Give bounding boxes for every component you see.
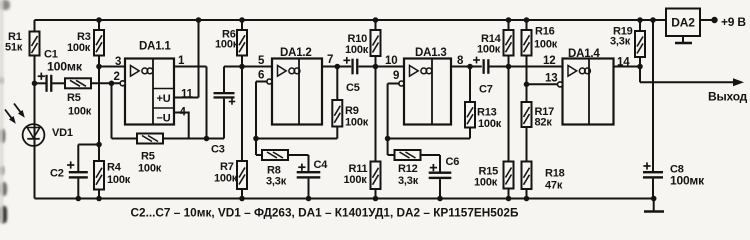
svg-text:100к: 100к — [67, 42, 91, 54]
svg-text:47к: 47к — [545, 180, 563, 192]
svg-text:51к: 51к — [5, 42, 23, 54]
svg-text:1: 1 — [178, 55, 185, 67]
svg-text:6: 6 — [258, 70, 264, 82]
svg-text:3,3к: 3,3к — [266, 175, 287, 187]
svg-text:C7: C7 — [479, 84, 493, 96]
svg-text:3,3к: 3,3к — [398, 175, 419, 187]
svg-text:2: 2 — [114, 71, 120, 83]
svg-text:8: 8 — [457, 55, 464, 67]
svg-text:100к: 100к — [345, 44, 369, 56]
svg-text:100к: 100к — [344, 174, 368, 186]
svg-text:DA1.4: DA1.4 — [568, 48, 600, 60]
svg-text:+9 В: +9 В — [721, 15, 746, 29]
svg-text:C3: C3 — [211, 144, 225, 156]
svg-text:R5: R5 — [141, 151, 155, 163]
svg-text:3: 3 — [115, 56, 121, 68]
svg-text:R16: R16 — [535, 26, 555, 38]
svg-text:100к: 100к — [477, 44, 501, 56]
svg-text:12: 12 — [543, 55, 555, 67]
svg-text:C4: C4 — [314, 159, 329, 171]
svg-text:100к: 100к — [215, 39, 239, 51]
svg-text:10: 10 — [385, 55, 397, 67]
svg-text:100к: 100к — [107, 174, 131, 186]
svg-text:R13: R13 — [477, 107, 497, 119]
svg-text:+U: +U — [157, 93, 171, 105]
svg-text:R12: R12 — [398, 163, 418, 175]
svg-text:R9: R9 — [345, 105, 359, 117]
svg-text:100мк: 100мк — [47, 60, 83, 74]
svg-text:4: 4 — [180, 107, 187, 119]
svg-text:11: 11 — [181, 89, 194, 101]
svg-text:C5: C5 — [346, 82, 360, 94]
svg-text:5: 5 — [258, 55, 265, 67]
svg-text:C2: C2 — [50, 168, 64, 180]
svg-text:−U: −U — [157, 113, 171, 125]
svg-text:Выход: Выход — [708, 90, 748, 104]
svg-text:R18: R18 — [545, 168, 565, 180]
svg-text:100к: 100к — [214, 173, 238, 185]
svg-text:100к: 100к — [345, 117, 369, 129]
svg-text:100мк: 100мк — [670, 174, 705, 188]
svg-text:100к: 100к — [534, 39, 558, 51]
svg-text:100к: 100к — [138, 163, 162, 175]
svg-text:100к: 100к — [68, 106, 92, 118]
svg-text:82к: 82к — [535, 117, 553, 129]
svg-text:DA1.1: DA1.1 — [139, 41, 171, 53]
svg-text:C2...C7 – 10мк, VD1 – ФД263, D: C2...C7 – 10мк, VD1 – ФД263, DA1 – К1401… — [131, 206, 519, 220]
svg-text:DA1.3: DA1.3 — [415, 47, 447, 59]
svg-text:3,3к: 3,3к — [610, 36, 631, 48]
svg-text:7: 7 — [327, 54, 333, 66]
svg-text:R5: R5 — [67, 92, 81, 104]
svg-text:VD1: VD1 — [52, 127, 73, 139]
svg-text:C6: C6 — [446, 156, 460, 168]
svg-text:9: 9 — [393, 70, 399, 82]
svg-text:R7: R7 — [220, 161, 234, 173]
svg-text:13: 13 — [545, 73, 557, 85]
svg-text:100к: 100к — [474, 177, 498, 189]
svg-text:R4: R4 — [107, 162, 122, 174]
svg-text:DA1.2: DA1.2 — [280, 47, 312, 59]
svg-text:DA2: DA2 — [671, 16, 695, 30]
svg-text:100к: 100к — [478, 118, 502, 130]
